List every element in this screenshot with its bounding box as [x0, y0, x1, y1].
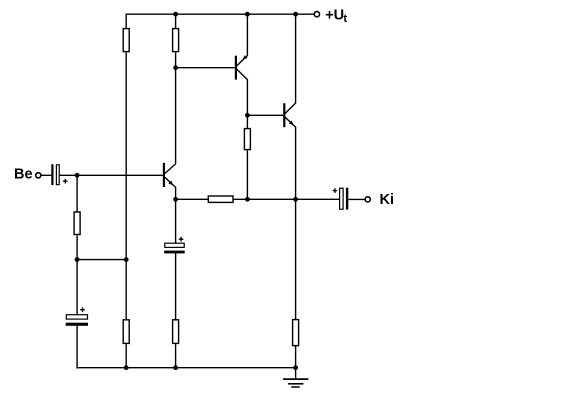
- resistor R8: [293, 320, 299, 346]
- transistor Q3 (NPN): [163, 163, 176, 187]
- node Q3 base junction: [75, 173, 80, 178]
- wire C3 bottom to R7: [175, 253, 177, 319]
- node divider junction right: [124, 257, 129, 262]
- wire Q3 base lead: [77, 174, 163, 176]
- wire C4 to output terminal: [348, 198, 365, 200]
- wire top supply rail: [126, 13, 315, 15]
- node bottom rail at ground: [293, 365, 298, 370]
- node top rail at R2: [173, 12, 178, 17]
- node output junction at R3: [245, 197, 250, 202]
- wire base node down to R5: [76, 175, 78, 212]
- node Q3 emitter junction: [173, 197, 178, 202]
- node bottom rail at R7: [173, 365, 178, 370]
- wire Q1 base node down to Q3 collector: [175, 68, 177, 165]
- wire emitter node to R4: [176, 198, 208, 200]
- resistor R1: [123, 29, 129, 52]
- node divider junction left: [75, 257, 80, 262]
- wire R4 to output junctions: [234, 198, 296, 200]
- node input terminal circle: [36, 173, 41, 178]
- svg-text:Ki: Ki: [380, 192, 395, 208]
- wire left branch from rail to R1: [125, 14, 127, 29]
- wire R1 bottom down to R6: [125, 52, 127, 319]
- wire R6 bottom to bottom rail: [125, 344, 127, 368]
- resistor R2: [173, 29, 179, 52]
- resistor R7: [173, 320, 179, 344]
- node bottom rail at R6: [124, 365, 129, 370]
- node output junction at Q2 emitter: [293, 197, 298, 202]
- resistor R5: [74, 212, 80, 235]
- capacitor C4 (output electrolytic): [333, 188, 349, 210]
- wire R7 bottom to bottom rail: [175, 344, 177, 368]
- wire cross link to left branch: [77, 259, 126, 261]
- wire bottom rail: [76, 367, 295, 369]
- wire R8 bottom to ground node: [295, 345, 297, 367]
- capacitor C1 (input electrolytic): [51, 164, 67, 185]
- capacitor C3 (emitter bypass electrolytic): [164, 237, 185, 254]
- wire R3 bottom to output line: [246, 150, 248, 199]
- node top rail at Q1 emitter: [245, 12, 250, 17]
- wire input terminal to C1: [41, 174, 51, 176]
- wire Q2 base lead: [247, 114, 283, 116]
- wire R5 bottom to node: [76, 235, 78, 259]
- wire emitter node down to C3: [175, 199, 177, 243]
- svg-text:t: t: [343, 13, 347, 25]
- node Q1 base junction: [173, 65, 178, 70]
- node output terminal circle: [365, 197, 370, 202]
- wire Q2 emitter down to output node: [295, 127, 297, 199]
- node Q2 base junction: [245, 113, 250, 118]
- wire Q1 collector down to Q2 base node: [246, 79, 248, 115]
- ground: [283, 368, 308, 387]
- wire C1 to base node: [60, 174, 78, 176]
- wire Q2 base node down to R3: [246, 115, 248, 128]
- resistor R6: [123, 320, 129, 344]
- wire rail to R2: [175, 14, 177, 28]
- wire rail down to Q1 emitter: [246, 14, 248, 56]
- wire Q3 emitter down to output node: [175, 187, 177, 199]
- transistor Q2 (NPN): [283, 103, 296, 127]
- node top rail at Q2 collector: [293, 12, 298, 17]
- svg-text:+U: +U: [325, 8, 344, 24]
- wire output node down to R8: [295, 199, 297, 319]
- svg-text:Be: Be: [14, 167, 33, 183]
- wire Q1 base lead: [176, 67, 235, 69]
- wire output node to C4: [296, 198, 340, 200]
- wire rail down to Q2 collector: [295, 14, 297, 103]
- transistor Q1 (PNP): [235, 55, 248, 79]
- capacitor C2 (electrolytic): [66, 307, 88, 325]
- node supply terminal circle: [314, 12, 319, 17]
- wire C2 bottom to bottom rail: [76, 326, 78, 369]
- label +Ut: [325, 8, 347, 26]
- resistor R4 (horizontal): [208, 196, 233, 202]
- wire node down to C2: [76, 260, 78, 315]
- wire R2 bottom to Q1 base node: [175, 52, 177, 67]
- resistor R3: [244, 129, 250, 150]
